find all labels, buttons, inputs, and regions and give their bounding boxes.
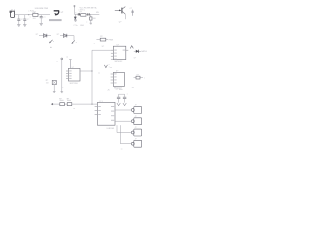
svg-text:USB MINI PWR: USB MINI PWR — [35, 8, 49, 10]
svg-text:ULN2003: ULN2003 — [107, 128, 115, 130]
svg-text:C?: C? — [27, 19, 29, 21]
svg-text:U?: U? — [117, 44, 119, 46]
svg-text:D?: D? — [57, 34, 59, 36]
svg-text:J?: J? — [135, 127, 137, 129]
svg-text:C?: C? — [108, 90, 110, 92]
svg-text:MCP1700: MCP1700 — [70, 83, 78, 85]
svg-text:J?: J? — [135, 116, 137, 118]
svg-text:600: 600 — [33, 18, 36, 20]
svg-text:Q?: Q? — [119, 21, 122, 23]
svg-text:x: x — [127, 93, 128, 95]
svg-text:xx: xx — [110, 67, 112, 69]
svg-text:R?: R? — [137, 74, 139, 76]
svg-text:xx: xx — [73, 108, 75, 110]
svg-text:GND: GND — [80, 25, 85, 27]
svg-text:xx: xx — [121, 148, 123, 150]
svg-text:xx: xx — [98, 73, 100, 75]
svg-text:1 2 3: 1 2 3 — [99, 101, 103, 103]
svg-text:x: x — [57, 61, 58, 63]
svg-text:C?1u: C?1u — [73, 25, 77, 27]
svg-text:x: x — [109, 64, 110, 66]
svg-text:BAT54: BAT54 — [141, 50, 146, 53]
svg-text:C? 100n: C? 100n — [116, 89, 123, 91]
svg-text:C?: C? — [43, 17, 45, 19]
svg-text:C?: C? — [130, 8, 132, 10]
svg-text:J?: J? — [135, 105, 137, 107]
svg-text:SN74LVC: SN74LVC — [115, 61, 124, 63]
svg-text:U?: U? — [102, 46, 104, 48]
svg-text:D?: D? — [36, 34, 38, 36]
svg-text:xx: xx — [132, 87, 134, 89]
svg-text:x: x — [53, 41, 54, 43]
svg-text:xx: xx — [66, 57, 68, 59]
svg-text:J?: J? — [135, 138, 137, 140]
svg-text:PWR: PWR — [109, 40, 114, 42]
svg-text:C?: C? — [21, 19, 23, 21]
svg-text:x: x — [30, 16, 31, 18]
svg-text:FB?: FB? — [33, 12, 36, 14]
svg-text:D?: D? — [134, 57, 136, 59]
svg-text:R?: R? — [80, 12, 82, 14]
svg-text:R?: R? — [100, 36, 102, 38]
svg-text:x: x — [76, 42, 77, 44]
svg-text:x: x — [94, 43, 95, 45]
